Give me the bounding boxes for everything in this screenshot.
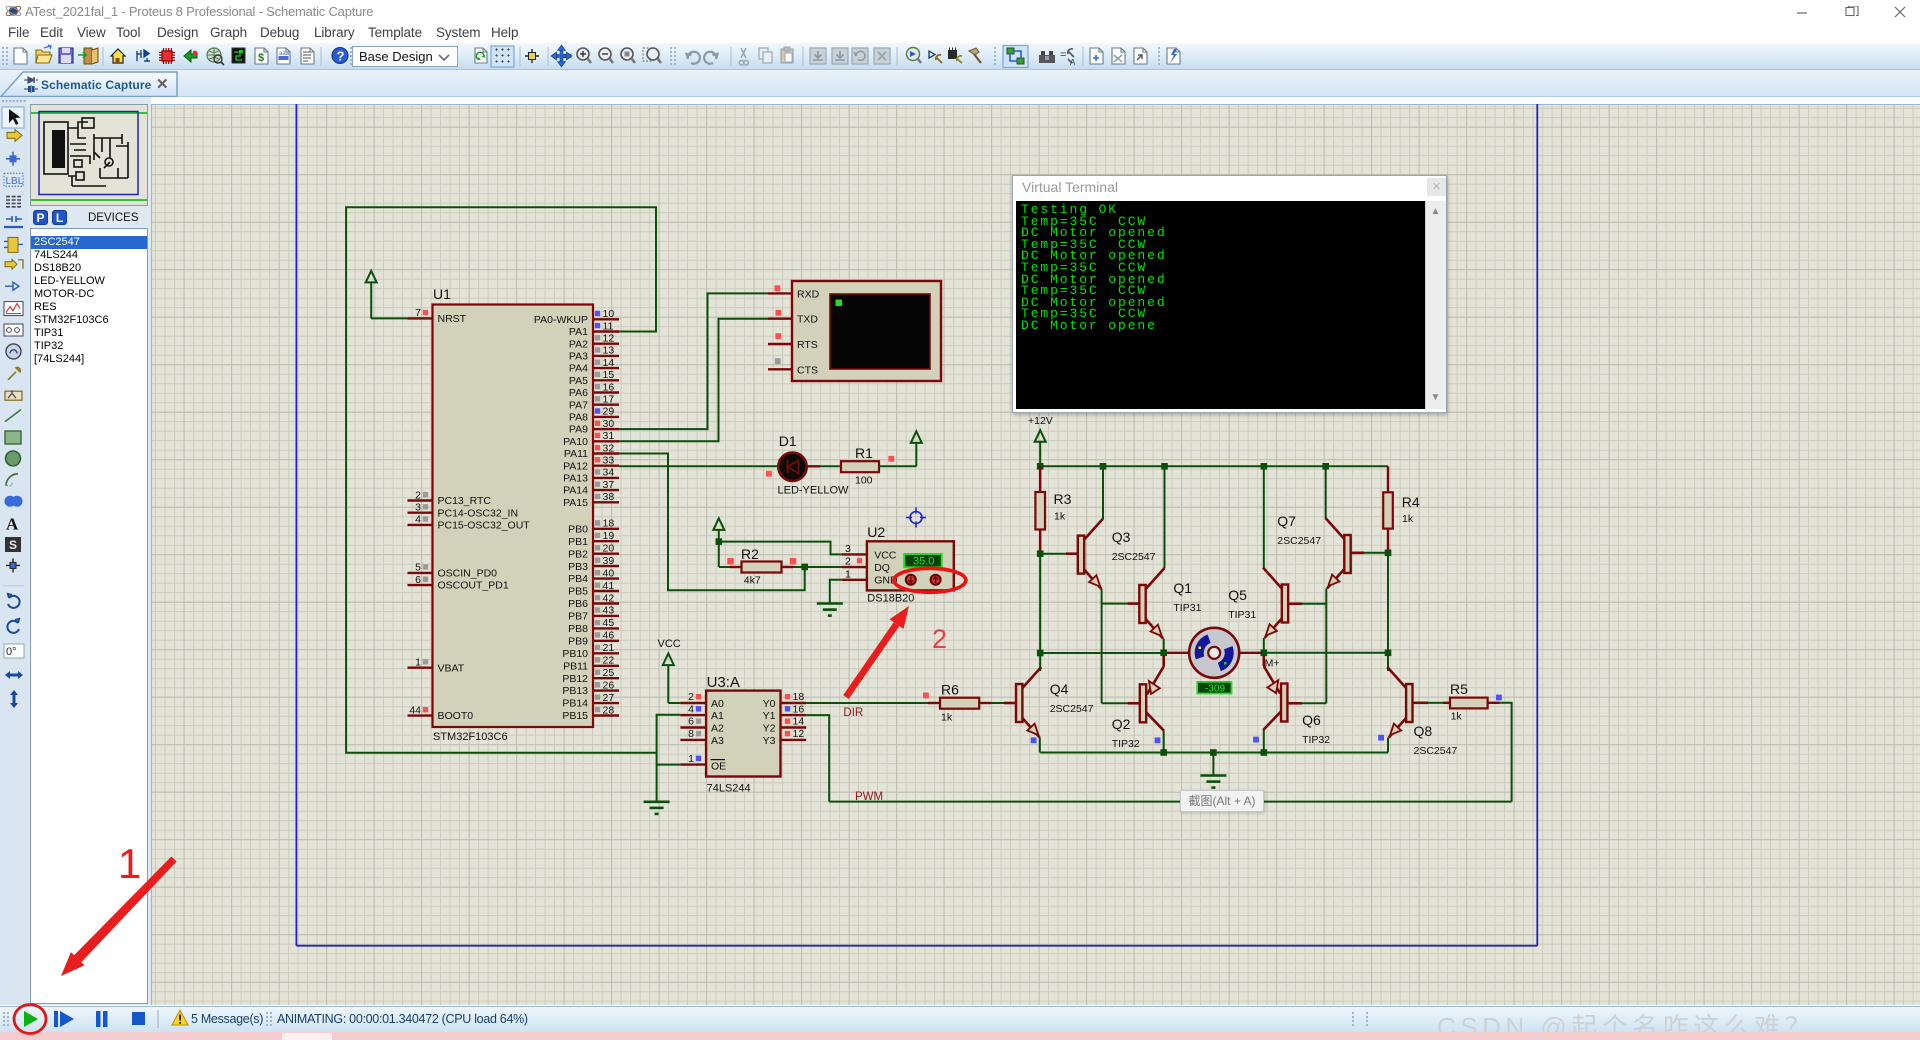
svg-text:8: 8 xyxy=(688,728,694,740)
U3 pin 18 xyxy=(781,691,807,703)
svg-text:5: 5 xyxy=(415,562,421,574)
svg-text:-309: -309 xyxy=(1205,683,1225,694)
svg-text:0°: 0° xyxy=(6,646,17,658)
svg-text:27: 27 xyxy=(603,692,615,704)
U1 pin 12 PA2 xyxy=(569,333,619,351)
svg-text:DS18B20: DS18B20 xyxy=(867,593,914,605)
svg-text:2SC2547: 2SC2547 xyxy=(1050,703,1094,715)
transistor Q3 2SC2547 xyxy=(1078,519,1156,591)
resistor R3 1k xyxy=(1035,466,1071,553)
svg-text:26: 26 xyxy=(603,679,615,691)
svg-text:2: 2 xyxy=(845,556,851,568)
power VCC arrow at 74LS244 xyxy=(663,654,674,704)
svg-text:2: 2 xyxy=(415,489,421,501)
wire Q5 base xyxy=(1288,602,1302,605)
U1 pin 7 NRST xyxy=(408,307,467,325)
junction bus x1164 xyxy=(1161,463,1168,470)
state square Q2 xyxy=(1155,737,1161,743)
svg-text:43: 43 xyxy=(603,605,615,617)
svg-text:A3: A3 xyxy=(711,735,724,747)
svg-text:Y1: Y1 xyxy=(763,710,776,722)
svg-text:2: 2 xyxy=(688,691,694,703)
U2 pin 3 xyxy=(842,543,867,555)
junction at VCC/R2 xyxy=(716,538,723,545)
resistor R2 4k7 xyxy=(727,546,796,587)
junction bottom right xyxy=(1261,749,1268,756)
U1 pin 37 PA14 xyxy=(563,479,619,497)
svg-text:aaa: aaa xyxy=(279,51,290,57)
wire Q8 base lead xyxy=(1413,701,1429,704)
svg-text:1: 1 xyxy=(845,568,851,580)
svg-text:29: 29 xyxy=(603,406,615,418)
wire VCC to DS18B20 pin3 xyxy=(719,542,842,555)
state square Q6 xyxy=(1253,737,1259,743)
wire R2 left lead xyxy=(719,566,730,568)
svg-text:PB13: PB13 xyxy=(562,685,588,697)
wire TXD to PA10 xyxy=(619,319,768,442)
U1 pin 26 PB13 xyxy=(562,679,619,697)
svg-text:TIP32: TIP32 xyxy=(1302,734,1330,746)
U2 pin 1 xyxy=(842,568,867,580)
svg-text:4: 4 xyxy=(415,514,421,526)
wire R1 to VCC xyxy=(879,465,916,467)
svg-text:PA0-WKUP: PA0-WKUP xyxy=(534,314,588,326)
svg-text:PA7: PA7 xyxy=(569,399,588,411)
svg-text:1k: 1k xyxy=(1402,513,1414,525)
svg-text:1: 1 xyxy=(415,657,421,669)
svg-text:1k: 1k xyxy=(941,712,953,724)
wire Q7 collector to bus xyxy=(1325,466,1327,518)
U1 pin 27 PB14 xyxy=(562,692,619,710)
motor MOTOR-DC xyxy=(1164,628,1264,678)
U1 pin 18 PB0 xyxy=(568,518,619,536)
resistor R5 1k xyxy=(1443,681,1502,723)
transistor Q7 2SC2547 xyxy=(1277,513,1350,590)
wire Q6 emitter to bottom bus xyxy=(1263,730,1265,753)
U1 pin 33 PA12 xyxy=(563,455,619,473)
svg-text:28: 28 xyxy=(603,704,615,716)
U1 pin 40 PB4 xyxy=(568,567,619,585)
svg-text:25: 25 xyxy=(603,667,615,679)
svg-text:14: 14 xyxy=(793,716,805,728)
wire +12V top bus xyxy=(1040,465,1388,467)
svg-text:D1: D1 xyxy=(779,433,797,449)
window controls xyxy=(1795,6,1915,18)
U1 pin 43 PB7 xyxy=(568,605,619,623)
wire Q4 base lead xyxy=(1004,702,1016,705)
svg-text:16: 16 xyxy=(603,381,615,393)
U3 pin 16 xyxy=(781,703,807,715)
svg-text:OSCIN_PD0: OSCIN_PD0 xyxy=(438,568,498,580)
U1 pin 42 PB6 xyxy=(568,592,619,610)
svg-text:TIP31: TIP31 xyxy=(1173,602,1201,614)
svg-text:PC13_RTC: PC13_RTC xyxy=(438,495,492,507)
svg-text:RXD: RXD xyxy=(797,288,820,300)
U1 pin 1 VBAT xyxy=(408,657,465,675)
resistor R1 100 xyxy=(841,445,894,487)
svg-text:2SC2547: 2SC2547 xyxy=(1414,745,1458,757)
wire Y1 to PWM xyxy=(806,715,829,802)
transistor Q1 TIP31 xyxy=(1139,568,1201,640)
svg-text:U3:A: U3:A xyxy=(707,674,740,691)
svg-text:PB7: PB7 xyxy=(568,611,588,623)
wire Q8 emitter to bottom bus xyxy=(1387,738,1389,753)
svg-text:=: = xyxy=(1060,49,1066,61)
svg-text:Q6: Q6 xyxy=(1302,712,1321,728)
svg-text:R5: R5 xyxy=(1450,681,1468,697)
wire M- horizontal xyxy=(1040,652,1164,654)
junction bottom left xyxy=(1160,749,1167,756)
U1 pin 38 PA15 xyxy=(563,491,619,509)
temperature sensor U2 DS18B20 xyxy=(867,524,954,605)
svg-text:16: 16 xyxy=(793,703,805,715)
wire Q7 base xyxy=(1351,551,1364,554)
wire Q3 collector to bus xyxy=(1102,466,1104,519)
svg-text:PA9: PA9 xyxy=(569,424,588,436)
U1 pin 15 PA5 xyxy=(569,369,619,387)
U1 pin 22 PB11 xyxy=(563,655,619,673)
motor rpm display -309 xyxy=(1197,682,1231,694)
annotation arrow 1 xyxy=(61,857,177,977)
svg-text:PC14-OSC32_IN: PC14-OSC32_IN xyxy=(438,507,519,519)
svg-text:37: 37 xyxy=(603,479,615,491)
wire R3 to M- node xyxy=(1039,554,1041,653)
U3 pin 8 xyxy=(680,728,706,740)
U1 pin 5 OSCIN_PD0 xyxy=(408,562,498,580)
svg-text:30: 30 xyxy=(603,418,615,430)
svg-text:PB15: PB15 xyxy=(562,710,588,722)
svg-text:2SC2547: 2SC2547 xyxy=(1112,551,1156,563)
svg-text:A: A xyxy=(6,515,19,534)
svg-text:Q7: Q7 xyxy=(1277,513,1296,529)
svg-text:R1: R1 xyxy=(855,445,873,461)
wire Q4 emitter to bottom bus xyxy=(1039,738,1041,753)
svg-text:CTS: CTS xyxy=(797,364,818,376)
svg-text:1k: 1k xyxy=(1451,711,1463,723)
svg-text:PB14: PB14 xyxy=(562,698,588,710)
svg-text:7: 7 xyxy=(415,307,421,319)
junction bus x1040 xyxy=(1037,463,1044,470)
junction R2/DQ/PA11 xyxy=(801,564,808,571)
svg-text:Q1: Q1 xyxy=(1173,580,1192,596)
U1 pin 13 PA3 xyxy=(569,345,619,363)
wire OE tap xyxy=(657,764,681,766)
buffer U3:A 74LS244 xyxy=(706,674,780,795)
svg-text:Y0: Y0 xyxy=(763,698,776,710)
wire Q5 collector to bus xyxy=(1263,466,1265,567)
svg-text:22: 22 xyxy=(603,655,615,667)
svg-text:R2: R2 xyxy=(741,546,759,562)
svg-text:17: 17 xyxy=(603,394,615,406)
wire R5 to PWM xyxy=(1499,703,1512,802)
wire Q1 collector to bus xyxy=(1164,466,1166,568)
svg-text:TIP32: TIP32 xyxy=(1112,738,1140,750)
svg-text:19: 19 xyxy=(603,530,615,542)
U1 pin 25 PB12 xyxy=(562,667,619,685)
svg-text:4: 4 xyxy=(688,703,694,715)
svg-text:44: 44 xyxy=(409,704,421,716)
wire PWM horizontal xyxy=(829,801,1511,803)
svg-text:Q2: Q2 xyxy=(1112,716,1131,732)
svg-text:74LS244: 74LS244 xyxy=(707,783,751,795)
U1 pin 14 PA4 xyxy=(569,357,619,375)
resistor R4 1k xyxy=(1383,466,1420,553)
svg-text:R6: R6 xyxy=(941,682,959,698)
wire Q6 base lead xyxy=(1287,702,1302,705)
state square Q4 xyxy=(1031,737,1037,743)
wire RXD to PA9 xyxy=(619,293,768,429)
svg-text:Q4: Q4 xyxy=(1050,681,1069,697)
svg-text:LED-YELLOW: LED-YELLOW xyxy=(778,485,850,497)
U1 pin 39 PB3 xyxy=(568,555,619,573)
power VCC arrow at R2 xyxy=(713,518,724,541)
U1 pin 19 PB1 xyxy=(568,530,619,548)
wire Q6 collector to M+ xyxy=(1263,656,1266,666)
svg-text:38: 38 xyxy=(603,491,615,503)
svg-text:S: S xyxy=(9,538,17,552)
wire to Q8 collector xyxy=(1387,653,1389,671)
svg-text:RTS: RTS xyxy=(797,339,818,351)
svg-text:DIR: DIR xyxy=(843,707,863,719)
annotation arrow 2 xyxy=(843,606,909,699)
wire R6 to Q4 base xyxy=(991,702,1004,704)
terminal pin RXD xyxy=(768,285,820,300)
svg-text:A: A xyxy=(1070,58,1076,67)
svg-text:1k: 1k xyxy=(1054,511,1066,523)
U3 pin 1 xyxy=(680,753,706,765)
svg-text:11: 11 xyxy=(603,320,614,332)
svg-text:PA1: PA1 xyxy=(569,326,588,338)
wire VCC to A0 xyxy=(668,702,680,704)
junction motor left xyxy=(1160,650,1167,657)
svg-text:Q8: Q8 xyxy=(1414,723,1433,739)
U1 pin 29 PA8 xyxy=(569,406,619,424)
U1 pin 11 PA1 xyxy=(569,320,619,338)
svg-text:A0: A0 xyxy=(711,698,724,710)
svg-text:2SC2547: 2SC2547 xyxy=(1277,535,1321,547)
wire PA12 to D1 xyxy=(619,465,778,467)
ground under 74LS244 xyxy=(644,802,670,814)
sheet border xyxy=(296,104,1537,946)
svg-text:PA8: PA8 xyxy=(569,412,588,424)
svg-text:33: 33 xyxy=(603,455,615,467)
svg-text:NRST: NRST xyxy=(438,313,467,325)
power VCC arrow at R1 xyxy=(911,431,922,466)
svg-text:35.0: 35.0 xyxy=(913,556,934,568)
transistor Q2 TIP32 xyxy=(1112,667,1164,750)
svg-text:R4: R4 xyxy=(1402,494,1420,510)
wire NRST xyxy=(371,317,407,319)
svg-text:PB9: PB9 xyxy=(568,635,588,647)
terminal pin TXD xyxy=(768,310,818,326)
svg-text:Q3: Q3 xyxy=(1112,529,1131,545)
transistor Q5 TIP31 xyxy=(1228,568,1288,640)
svg-text:?: ? xyxy=(337,49,345,64)
U1 pin 4 PC15-OSC32_OUT xyxy=(408,514,531,532)
U3 pin 14 xyxy=(781,716,807,728)
U1 pin 16 PA6 xyxy=(569,381,619,399)
svg-text:VBAT: VBAT xyxy=(438,662,465,674)
svg-text:40: 40 xyxy=(603,567,615,579)
blue origin marker xyxy=(906,508,926,528)
svg-text:Q5: Q5 xyxy=(1228,587,1247,603)
junction bus x1325 xyxy=(1322,463,1329,470)
svg-text:STM32F103C6: STM32F103C6 xyxy=(433,731,508,743)
wire Q1 emitter to M- xyxy=(1163,639,1165,653)
transistor Q6 TIP32 xyxy=(1263,666,1330,746)
U1 pin 20 PB2 xyxy=(568,543,619,561)
svg-text:R3: R3 xyxy=(1054,491,1072,507)
junction M+ right xyxy=(1385,650,1392,657)
svg-text:PC15-OSC32_OUT: PC15-OSC32_OUT xyxy=(438,520,531,532)
svg-text:1: 1 xyxy=(688,753,694,765)
svg-text:12: 12 xyxy=(603,333,615,345)
wire Q3 emitter down to Q2 base xyxy=(1101,589,1103,703)
svg-text:PB1: PB1 xyxy=(568,536,588,548)
junction bottom ground xyxy=(1210,749,1217,756)
wire VCC down to R2 xyxy=(718,542,720,567)
annotation ellipse on DS18B20 buttons xyxy=(894,568,966,592)
U1 pin 6 OSCOUT_PD1 xyxy=(408,574,509,592)
U1 pin 3 PC14-OSC32_IN xyxy=(408,502,519,520)
U1 pin 46 PB9 xyxy=(568,630,619,648)
svg-text:6: 6 xyxy=(415,574,421,586)
wire PA11 to DS18B20 DQ xyxy=(619,454,805,591)
terminal pin CTS xyxy=(768,358,818,376)
svg-text:6: 6 xyxy=(688,716,694,728)
Virtual terminal window xyxy=(1012,175,1447,413)
U1 pin 31 PA10 xyxy=(563,430,619,448)
svg-text:Y2: Y2 xyxy=(763,723,776,735)
svg-text:PA14: PA14 xyxy=(563,485,588,497)
svg-text:10: 10 xyxy=(603,308,615,320)
U1 pin 32 PA11 xyxy=(564,442,619,460)
wire A1 from loop xyxy=(657,715,681,802)
svg-text:Y3: Y3 xyxy=(763,735,776,747)
wire bottom bus xyxy=(1040,752,1388,754)
svg-text:3: 3 xyxy=(415,502,421,514)
wire PA1 loop to 74LS244 A1 xyxy=(346,207,656,753)
wire to Q4 collector xyxy=(1039,653,1041,671)
svg-text:PA2: PA2 xyxy=(569,338,588,350)
svg-text:BOOT0: BOOT0 xyxy=(438,710,474,722)
svg-text:20: 20 xyxy=(603,543,615,555)
U1 pin 44 BOOT0 xyxy=(408,704,474,722)
U1 pin 30 PA9 xyxy=(569,418,619,436)
svg-text:PA12: PA12 xyxy=(563,460,588,472)
svg-text:18: 18 xyxy=(603,518,615,530)
wire R2 to DQ xyxy=(793,566,842,568)
ground bottom bus xyxy=(1200,753,1226,788)
svg-text:OSCOUT_PD1: OSCOUT_PD1 xyxy=(438,580,509,592)
svg-text:LBL: LBL xyxy=(6,176,24,187)
svg-text:PB12: PB12 xyxy=(562,673,588,685)
svg-text:46: 46 xyxy=(603,630,615,642)
transistor Q4 2SC2547 xyxy=(1016,667,1094,739)
svg-text:PB2: PB2 xyxy=(568,548,588,560)
U1 pin 21 PB10 xyxy=(562,642,619,660)
svg-text:PB4: PB4 xyxy=(568,573,588,585)
svg-text:PB11: PB11 xyxy=(563,660,588,672)
state square Q8 xyxy=(1378,735,1384,741)
svg-text:M+: M+ xyxy=(1265,658,1280,670)
svg-text:12: 12 xyxy=(793,728,805,740)
svg-text:A2: A2 xyxy=(711,723,724,735)
svg-text:34: 34 xyxy=(603,467,615,479)
svg-text:A1: A1 xyxy=(711,710,724,722)
svg-text:3: 3 xyxy=(845,543,851,555)
power +12V arrow xyxy=(1035,430,1046,466)
svg-text:+12V: +12V xyxy=(1028,415,1053,427)
svg-text:TIP31: TIP31 xyxy=(1228,609,1256,621)
wire M+ horizontal xyxy=(1264,652,1388,654)
svg-text:PA11: PA11 xyxy=(564,448,588,460)
svg-text:PA13: PA13 xyxy=(563,473,588,485)
svg-text:PB3: PB3 xyxy=(568,561,588,573)
resistor R6 1k xyxy=(923,682,991,724)
annotation circle around play button xyxy=(14,1005,46,1034)
junction motor right xyxy=(1261,650,1268,657)
schematic drawing inserted here xyxy=(151,104,1920,1005)
svg-text:VCC: VCC xyxy=(874,549,897,561)
svg-text:15: 15 xyxy=(603,369,615,381)
wire Q7 emitter down to Q6 base xyxy=(1325,589,1327,704)
wire Q5 emitter to M+ xyxy=(1263,638,1265,653)
U1 pin 10 PA0-WKUP xyxy=(534,308,619,326)
U3 pin 2 xyxy=(680,691,706,703)
terminal pin RTS xyxy=(768,333,818,351)
virtual terminal component xyxy=(792,281,941,381)
svg-text:18: 18 xyxy=(793,691,805,703)
U2 up button xyxy=(931,575,941,585)
ground under DS18B20 xyxy=(817,604,843,616)
svg-text:U1: U1 xyxy=(433,286,451,302)
svg-text:39: 39 xyxy=(603,555,615,567)
svg-text:21: 21 xyxy=(603,642,615,654)
svg-text:41: 41 xyxy=(603,580,615,592)
junction bus x1103 xyxy=(1100,463,1107,470)
U3 pin 6 xyxy=(680,716,706,728)
transistor Q8 2SC2547 xyxy=(1386,667,1457,757)
wire R4 to M+ node xyxy=(1387,553,1389,653)
svg-text:GND: GND xyxy=(874,575,898,587)
svg-text:PA5: PA5 xyxy=(569,375,588,387)
svg-text:PB10: PB10 xyxy=(562,648,588,660)
svg-text:OE: OE xyxy=(711,761,726,773)
svg-text:PA15: PA15 xyxy=(563,497,588,509)
svg-text:TXD: TXD xyxy=(797,314,818,326)
wire Q2 collector to M- xyxy=(1162,656,1165,667)
power VCC arrow at U1 NRST xyxy=(366,271,377,319)
svg-text:DQ: DQ xyxy=(874,562,890,574)
svg-text:U2: U2 xyxy=(867,524,885,540)
U3 pin 4 xyxy=(680,703,706,715)
svg-text:VCC: VCC xyxy=(658,638,681,650)
svg-text:PA3: PA3 xyxy=(569,351,588,363)
U2 pin 2 xyxy=(842,556,867,568)
status bar xyxy=(0,1006,1920,1032)
svg-text:PA4: PA4 xyxy=(569,363,588,375)
wire D1 to R1 xyxy=(820,465,841,467)
svg-text:PB8: PB8 xyxy=(568,623,588,635)
U3 pin 12 xyxy=(781,728,807,740)
U2 temperature display 35.0 xyxy=(904,554,942,568)
svg-text:PB0: PB0 xyxy=(568,523,588,535)
svg-text:4k7: 4k7 xyxy=(744,575,761,587)
svg-text:$: $ xyxy=(258,52,264,64)
svg-text:PB5: PB5 xyxy=(568,586,588,598)
svg-text:PB6: PB6 xyxy=(568,598,588,610)
